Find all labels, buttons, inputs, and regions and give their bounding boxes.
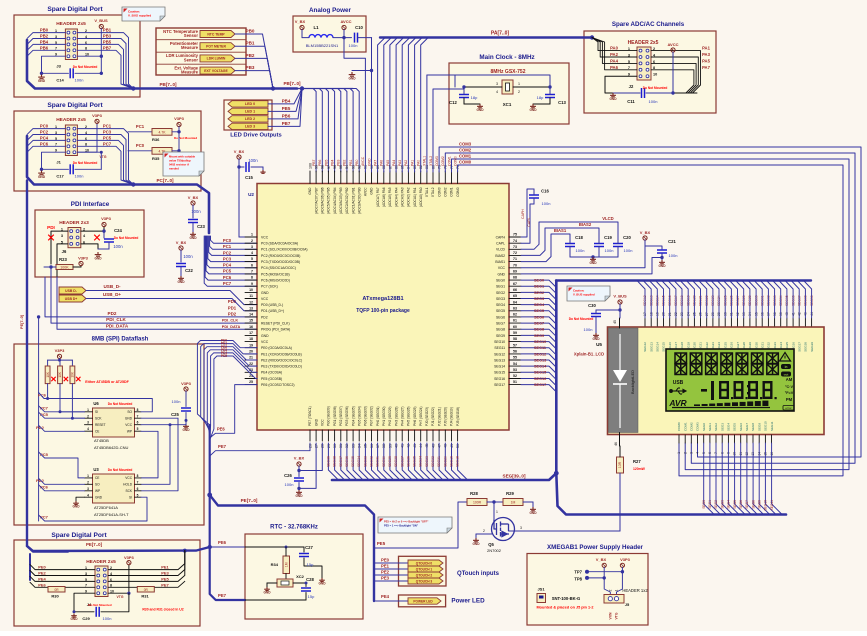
svg-text:U5: U5 <box>596 342 602 347</box>
sensor row LDR LUMIN <box>166 53 273 89</box>
svg-text:U6: U6 <box>93 401 99 406</box>
svg-text:GND: GND <box>592 337 600 341</box>
svg-text:SEG31: SEG31 <box>376 456 380 467</box>
svg-text:PC0 (SDA/OC0A/OC0A): PC0 (SDA/OC0A/OC0A) <box>261 242 298 246</box>
svg-text:SEG22: SEG22 <box>431 456 435 467</box>
svg-text:(ADCA2) PA2: (ADCA2) PA2 <box>407 187 411 207</box>
svg-text:1: 1 <box>496 510 498 514</box>
svg-text:100: 100 <box>308 163 312 169</box>
svg-text:68: 68 <box>513 276 517 280</box>
svg-text:Do Not Mounted: Do Not Mounted <box>88 603 111 607</box>
svg-text:100n: 100n <box>75 78 84 83</box>
svg-text:PDI_DATA: PDI_DATA <box>222 325 241 329</box>
svg-text:R28: R28 <box>470 491 478 496</box>
svg-text:SCK: SCK <box>95 417 102 421</box>
bus PC[7..0] inside box2 <box>27 136 209 233</box>
svg-text:needed: needed <box>169 167 179 171</box>
svg-text:GND: GND <box>476 108 484 112</box>
wires PB left side box1 <box>27 28 65 74</box>
svg-text:65: 65 <box>513 294 517 298</box>
svg-text:100R: 100R <box>473 501 482 505</box>
svg-text:19: 19 <box>249 343 253 347</box>
svg-text:Spare Digital Port: Spare Digital Port <box>51 532 107 539</box>
svg-text:SEG14: SEG14 <box>656 342 660 352</box>
svg-text:96: 96 <box>333 165 337 169</box>
svg-text:V_BUS: V_BUS <box>613 294 627 299</box>
ground J2 <box>609 93 617 101</box>
svg-text:AVCC: AVCC <box>364 187 368 196</box>
svg-text:out: out <box>784 373 789 377</box>
svg-text:SEG[39..0]: SEG[39..0] <box>503 474 526 479</box>
ground PDI <box>94 252 102 261</box>
svg-text:PH5 (SEG26): PH5 (SEG26) <box>407 407 411 427</box>
block: Power LED <box>399 595 486 607</box>
svg-text:GND: GND <box>261 334 269 338</box>
svg-text:C15: C15 <box>245 175 253 180</box>
svg-text:PG2 (SEG37): PG2 (SEG37) <box>339 406 343 426</box>
svg-text:HEADER 2x5: HEADER 2x5 <box>628 40 659 46</box>
bus PE[7..0] junction branch <box>207 493 374 601</box>
svg-text:C10: C10 <box>355 25 363 30</box>
capacitor C16 CAPH CAPL <box>521 189 550 244</box>
svg-text:SEG13: SEG13 <box>649 342 653 352</box>
svg-text:PB6: PB6 <box>40 45 49 50</box>
svg-text:PE2: PE2 <box>38 571 46 576</box>
svg-text:PD0 (USB_D-): PD0 (USB_D-) <box>261 303 283 307</box>
svg-text:SEG5: SEG5 <box>534 309 544 313</box>
svg-text:PA2: PA2 <box>404 160 408 166</box>
svg-text:Mounted & placed on J5 pin 1-2: Mounted & placed on J5 pin 1-2 <box>537 606 594 610</box>
svg-text:56: 56 <box>513 349 517 353</box>
svg-text:AVR: AVR <box>668 398 687 408</box>
svg-text:PA1: PA1 <box>702 46 711 51</box>
svg-text:PC1 (SCL/XCK0/OC0B/OC0A): PC1 (SCL/XCK0/OC0B/OC0A) <box>261 248 308 252</box>
svg-text:VCC: VCC <box>261 297 269 301</box>
svg-text:R23: R23 <box>59 257 67 262</box>
svg-text:GND: GND <box>529 511 537 515</box>
svg-text:100n: 100n <box>183 254 193 259</box>
svg-text:PJ1 (SEG22): PJ1 (SEG22) <box>431 407 435 426</box>
bus SEG bottom horizontal <box>332 473 556 480</box>
LED tag LED 0 <box>228 89 302 108</box>
svg-text:63: 63 <box>513 306 517 310</box>
svg-text:PB[7..0]: PB[7..0] <box>283 81 301 86</box>
svg-text:AM: AM <box>786 377 793 382</box>
svg-text:V_BX: V_BX <box>234 149 245 154</box>
svg-text:Measure: Measure <box>181 70 199 75</box>
svg-text:LED 2: LED 2 <box>245 117 255 121</box>
svg-text:USB D-: USB D- <box>65 289 77 293</box>
svg-text:C25: C25 <box>171 412 179 417</box>
svg-text:93: 93 <box>351 165 355 169</box>
svg-text:SEG2: SEG2 <box>534 291 544 295</box>
svg-text:QTOUCH 1: QTOUCH 1 <box>416 567 433 571</box>
backlight pin 46 <box>614 433 620 447</box>
svg-text:SEG1: SEG1 <box>496 285 505 289</box>
svg-text:GND: GND <box>318 581 326 585</box>
svg-text:PB7: PB7 <box>282 121 291 126</box>
svg-text:PE6: PE6 <box>218 540 227 545</box>
svg-text:R30 and R31 closed in U2: R30 and R31 closed in U2 <box>142 608 183 612</box>
svg-text:GND: GND <box>38 79 46 83</box>
power V3P3 dataflash <box>48 348 73 362</box>
svg-text:(ADC0/AC00) PB0: (ADC0/AC00) PB0 <box>357 187 361 214</box>
svg-text:SEG19: SEG19 <box>449 456 453 467</box>
svg-text:SEG8: SEG8 <box>751 500 755 509</box>
svg-text:LED 0: LED 0 <box>245 102 255 106</box>
wires PA left header <box>592 38 637 94</box>
svg-text:J6: J6 <box>62 249 67 254</box>
svg-text:15p: 15p <box>308 594 315 599</box>
svg-text:GND: GND <box>609 97 617 101</box>
block: Spare Digital Port PC <box>14 102 201 191</box>
svg-text:V_BX: V_BX <box>640 230 651 235</box>
svg-text:PG1 (SEG38): PG1 (SEG38) <box>333 406 337 426</box>
svg-text:100n: 100n <box>605 248 614 253</box>
svg-text:PB2: PB2 <box>246 53 255 58</box>
svg-text:HOLD: HOLD <box>123 483 133 487</box>
svg-text:PB2: PB2 <box>40 34 49 39</box>
svg-text:SNT-100-BK-G: SNT-100-BK-G <box>552 596 581 601</box>
connector J5 HEADER 1x2 <box>604 588 648 619</box>
svg-text:SEG0: SEG0 <box>534 278 544 282</box>
svg-text:AT45DB642D-CNU: AT45DB642D-CNU <box>94 445 128 450</box>
wire PE6 RTC lower <box>208 540 246 549</box>
svg-text:3: 3 <box>251 245 253 249</box>
svg-text:SEG25: SEG25 <box>413 456 417 467</box>
svg-text:PE6: PE6 <box>217 427 226 432</box>
svg-text:(ADCA0) PA0: (ADCA0) PA0 <box>419 187 423 207</box>
svg-text:GND: GND <box>529 108 537 112</box>
wires PE left header <box>30 565 95 612</box>
jumper JS1 SNT-100-BK-G <box>537 587 594 610</box>
svg-text:SEG9: SEG9 <box>534 334 544 338</box>
svg-text:Q5: Q5 <box>488 542 494 547</box>
svg-text:SEG9: SEG9 <box>757 423 761 431</box>
svg-text:GND: GND <box>125 417 133 421</box>
svg-text:WP: WP <box>127 429 132 433</box>
svg-text:45: 45 <box>613 320 617 324</box>
svg-text:QTouch inputs: QTouch inputs <box>457 571 500 577</box>
svg-text:SI: SI <box>95 410 98 414</box>
resistor R36 with pullup <box>128 124 197 142</box>
svg-text:Sensor: Sensor <box>184 33 199 38</box>
svg-text:PE5: PE5 <box>161 576 169 581</box>
svg-text:SEG4: SEG4 <box>727 500 731 509</box>
wire PD2 <box>45 277 257 317</box>
svg-text:1: 1 <box>677 452 681 454</box>
svg-text:SEG26: SEG26 <box>406 456 410 467</box>
svg-text:GND: GND <box>261 291 269 295</box>
resistor R28 <box>467 491 503 506</box>
resistor R23 <box>44 257 81 270</box>
svg-text:(ADC7/AC07) PB7: (ADC7/AC07) PB7 <box>314 187 318 214</box>
svg-text:R35: R35 <box>152 156 160 161</box>
svg-text:COM3: COM3 <box>437 187 441 196</box>
svg-text:GND: GND <box>367 158 371 166</box>
block: Main Clock 8MHz <box>449 54 569 124</box>
block: Spare ADC/AC Channels <box>584 21 716 113</box>
svg-text:PG6 (SEG33): PG6 (SEG33) <box>364 406 368 426</box>
svg-text:VLCD: VLCD <box>496 248 506 252</box>
capacitor C30 <box>569 303 601 341</box>
svg-text:1: 1 <box>518 82 520 86</box>
svg-text:Do Not Mounted: Do Not Mounted <box>108 402 133 406</box>
svg-text:SEG15: SEG15 <box>662 342 666 352</box>
svg-text:PD2: PD2 <box>261 315 268 319</box>
capacitor C19 <box>594 235 613 257</box>
wires U6 right nets <box>141 418 186 491</box>
svg-text:99: 99 <box>314 165 318 169</box>
svg-text:PE1: PE1 <box>161 565 169 570</box>
svg-text:SEG17: SEG17 <box>494 383 505 387</box>
power V3P3 box2 <box>92 113 103 123</box>
svg-text:SEG4: SEG4 <box>727 423 731 431</box>
svg-text:PA6: PA6 <box>610 65 619 70</box>
svg-text:PA2: PA2 <box>610 52 619 57</box>
note caution V_BUS top <box>122 7 165 21</box>
svg-text:AT25DF641A-SH-T: AT25DF641A-SH-T <box>94 512 129 517</box>
svg-text:PG0 (SEG39): PG0 (SEG39) <box>327 406 331 426</box>
svg-text:GND: GND <box>308 187 312 195</box>
svg-text:PA3: PA3 <box>702 52 711 57</box>
backlight LED bar <box>609 328 639 433</box>
svg-text:120mW: 120mW <box>633 467 646 471</box>
svg-text:SI: SI <box>129 496 132 500</box>
svg-text:94: 94 <box>345 165 349 169</box>
svg-text:PB5: PB5 <box>282 106 291 111</box>
svg-text:(ADCA4) PA4: (ADCA4) PA4 <box>394 187 398 207</box>
svg-text:PA0: PA0 <box>417 160 421 166</box>
svg-text:SO: SO <box>95 483 100 487</box>
svg-text:61: 61 <box>513 319 517 323</box>
svg-text:95: 95 <box>339 165 343 169</box>
svg-text:PC6: PC6 <box>223 275 232 280</box>
svg-text:VXN: VXN <box>609 612 613 620</box>
svg-text:10K: 10K <box>46 371 50 378</box>
svg-text:PA1: PA1 <box>410 160 414 166</box>
svg-text:2: 2 <box>518 90 520 94</box>
svg-text:100n: 100n <box>649 99 658 104</box>
svg-text:VCC: VCC <box>498 266 506 270</box>
svg-text:54: 54 <box>513 362 517 366</box>
svg-text:PC4: PC4 <box>223 263 232 268</box>
connector J4 HEADER 2x5 PE <box>85 559 124 607</box>
svg-text:GND: GND <box>295 494 303 498</box>
svg-text:PG4 (SEG35): PG4 (SEG35) <box>351 406 355 426</box>
svg-text:PC3: PC3 <box>223 256 232 261</box>
svg-text:C21: C21 <box>668 239 676 244</box>
inductor L1 <box>302 25 352 48</box>
svg-text:2: 2 <box>87 480 89 484</box>
svg-text:error: error <box>785 406 791 410</box>
bus PA[7..0] <box>380 31 594 40</box>
svg-text:SEG14: SEG14 <box>534 365 547 369</box>
resistor R26 <box>70 360 81 420</box>
svg-text:PROG (PDI_DATA): PROG (PDI_DATA) <box>261 328 290 332</box>
resistor R34 <box>271 547 290 579</box>
svg-text:Spare Digital Port: Spare Digital Port <box>47 102 103 109</box>
svg-text:PJ0 (SEG23): PJ0 (SEG23) <box>425 407 429 426</box>
svg-text:HEADER 2x5: HEADER 2x5 <box>56 21 86 27</box>
svg-text:(ADC3/AC03) PB3: (ADC3/AC03) PB3 <box>339 187 343 214</box>
svg-text:RESET: RESET <box>95 423 106 427</box>
svg-text:Main Clock - 8MHz: Main Clock - 8MHz <box>479 54 534 61</box>
svg-text:PC0: PC0 <box>40 124 49 129</box>
svg-text:PB4: PB4 <box>40 39 49 44</box>
svg-text:(ADC4/AC04) PB4: (ADC4/AC04) PB4 <box>333 187 337 214</box>
svg-text:COM0: COM0 <box>453 156 457 166</box>
resistor R27 <box>617 446 646 531</box>
svg-text:C30: C30 <box>588 303 596 308</box>
svg-text:18p: 18p <box>471 95 478 100</box>
svg-text:AT25DF641A: AT25DF641A <box>94 505 118 510</box>
svg-text:100n: 100n <box>576 248 585 253</box>
svg-text:PG5 (SEG34): PG5 (SEG34) <box>357 406 361 426</box>
svg-text:C18: C18 <box>575 235 583 240</box>
svg-text:100n: 100n <box>103 616 112 621</box>
svg-text:PDI_CLK: PDI_CLK <box>222 319 239 323</box>
svg-text:PE[7..0]: PE[7..0] <box>86 542 103 547</box>
ground box1 <box>38 72 46 83</box>
svg-text:SEG14: SEG14 <box>494 365 505 369</box>
wire Q5 drain to R27 <box>509 526 621 531</box>
svg-text:SEG10: SEG10 <box>764 500 768 511</box>
svg-text:PE5 = 1 ==> Backlight: PE5 = 1 ==> Backlight "ON" <box>384 524 419 528</box>
block: PDI Interface <box>35 201 144 277</box>
svg-text:PH6 (SEG25): PH6 (SEG25) <box>413 407 417 427</box>
capacitor C10 <box>349 25 372 48</box>
svg-text:GND: GND <box>370 187 374 195</box>
svg-text:(ADCA7) PA7: (ADCA7) PA7 <box>376 187 380 207</box>
svg-text:7: 7 <box>137 414 139 418</box>
svg-text:PE1 (XCK0/OC0B/OC0LB): PE1 (XCK0/OC0B/OC0LB) <box>261 352 302 356</box>
svg-text:Do Not Mounted: Do Not Mounted <box>73 65 98 69</box>
wires PA right header <box>651 46 711 93</box>
capacitor C20 <box>613 235 632 257</box>
svg-text:Xplain-B1_LCD: Xplain-B1_LCD <box>574 352 604 357</box>
svg-text:57: 57 <box>513 343 517 347</box>
svg-text:100n: 100n <box>248 158 258 163</box>
svg-text:SEG17: SEG17 <box>534 383 546 387</box>
svg-text:SEG12: SEG12 <box>494 352 505 356</box>
svg-text:AVCC: AVCC <box>667 42 678 47</box>
svg-text:SEG7: SEG7 <box>745 423 749 431</box>
svg-text:GND: GND <box>472 542 480 546</box>
svg-text:0R: 0R <box>54 588 59 592</box>
bus PE in box <box>27 542 210 580</box>
svg-text:PC2: PC2 <box>223 250 232 255</box>
transistor Q5 2N7002 <box>487 502 515 553</box>
svg-text:V_BX: V_BX <box>188 195 199 200</box>
svg-text:(ADC6/AC06) PB6: (ADC6/AC06) PB6 <box>321 187 325 214</box>
svg-text:SEG13: SEG13 <box>494 358 505 362</box>
capacitor C14 <box>42 65 102 82</box>
svg-text:60: 60 <box>513 325 517 329</box>
wires SEG0-11 LCD bottom to bus <box>702 443 782 515</box>
power V_BX supply header <box>596 557 611 595</box>
MCU top pins 100-76 <box>308 163 460 214</box>
svg-text:2: 2 <box>683 452 687 454</box>
bus PE left side vertical <box>20 181 68 552</box>
svg-text:PD2: PD2 <box>228 311 237 316</box>
sensor row NTC TEMP <box>163 29 273 89</box>
wire Q5 source to ground <box>472 529 491 546</box>
svg-text:PG3 (SEG36): PG3 (SEG36) <box>345 406 349 426</box>
LCD U5 Xplain-B1_LCD module <box>574 327 824 435</box>
svg-text:PH1 (SEG30): PH1 (SEG30) <box>382 407 386 427</box>
capacitor C22 with V_BX <box>176 240 194 284</box>
svg-text:XTAL2: XTAL2 <box>429 156 433 166</box>
svg-text:USB D+: USB D+ <box>65 297 78 301</box>
LED tag LED 1 <box>228 89 302 115</box>
svg-text:SEG27: SEG27 <box>400 456 404 467</box>
svg-text:PC7 (SCK): PC7 (SCK) <box>261 285 278 289</box>
wires PC right side box2 <box>77 123 133 184</box>
svg-text:HEADER 2x5: HEADER 2x5 <box>86 559 116 565</box>
svg-text:QTOUCH 0: QTOUCH 0 <box>416 561 433 565</box>
svg-text:CAPL: CAPL <box>527 217 531 226</box>
svg-text:V_BUS supplied: V_BUS supplied <box>128 14 151 18</box>
svg-text:PE5: PE5 <box>221 354 227 358</box>
svg-text:3: 3 <box>496 82 498 86</box>
svg-text:1: 1 <box>251 233 253 237</box>
LCD top pins 17-44 with SEG wires <box>637 281 814 352</box>
svg-text:3: 3 <box>520 526 522 530</box>
svg-text:PH0 (SEG31): PH0 (SEG31) <box>376 407 380 427</box>
svg-text:(ADCA6) PA6: (ADCA6) PA6 <box>382 187 386 207</box>
svg-text:SEG32: SEG32 <box>370 456 374 467</box>
svg-text:SEG6: SEG6 <box>496 315 505 319</box>
resistor R25 <box>58 360 69 413</box>
svg-text:ATxmega128B1: ATxmega128B1 <box>362 296 403 302</box>
svg-text:18: 18 <box>249 337 253 341</box>
svg-text:COM2: COM2 <box>441 156 445 166</box>
svg-text:10K: 10K <box>58 371 62 378</box>
svg-text:VTG: VTG <box>615 612 619 619</box>
svg-text:PC2: PC2 <box>40 130 49 135</box>
svg-text:PE[7..0]: PE[7..0] <box>20 314 24 329</box>
svg-text:SEG0: SEG0 <box>702 500 706 509</box>
svg-text:PA5: PA5 <box>386 160 390 166</box>
svg-text:PC1: PC1 <box>136 124 145 129</box>
svg-text:HEADER 2x3: HEADER 2x3 <box>59 220 89 226</box>
capacitor C13 <box>529 87 566 112</box>
svg-text:GND: GND <box>348 77 356 81</box>
svg-text:PA4: PA4 <box>392 160 396 166</box>
svg-text:SEG15: SEG15 <box>494 371 505 375</box>
svg-text:PJ2 (SEG21): PJ2 (SEG21) <box>437 407 441 426</box>
svg-text:SEG30: SEG30 <box>382 456 386 467</box>
svg-text:100n: 100n <box>285 482 294 487</box>
wire PDI_DATA <box>57 277 257 329</box>
svg-text:VCC: VCC <box>261 235 269 239</box>
svg-text:CAPH: CAPH <box>521 209 525 219</box>
svg-text:SEG34: SEG34 <box>357 456 361 467</box>
resistor R30 <box>48 587 65 599</box>
svg-text:2N7002: 2N7002 <box>487 548 502 553</box>
svg-text:Do Not Mounted: Do Not Mounted <box>108 468 133 472</box>
svg-text:SEG0: SEG0 <box>702 423 706 431</box>
block: RTC 32.768KHz <box>245 525 363 620</box>
svg-text:SEG2: SEG2 <box>496 291 505 295</box>
svg-text:SEG1: SEG1 <box>708 423 712 431</box>
svg-text:BLM15BB221SN1: BLM15BB221SN1 <box>306 43 339 48</box>
sensor row POT METER <box>170 41 273 89</box>
power V3P3 R23 <box>78 256 89 266</box>
svg-text:R31: R31 <box>141 594 149 599</box>
block: Spare Digital Port PE <box>14 532 200 626</box>
